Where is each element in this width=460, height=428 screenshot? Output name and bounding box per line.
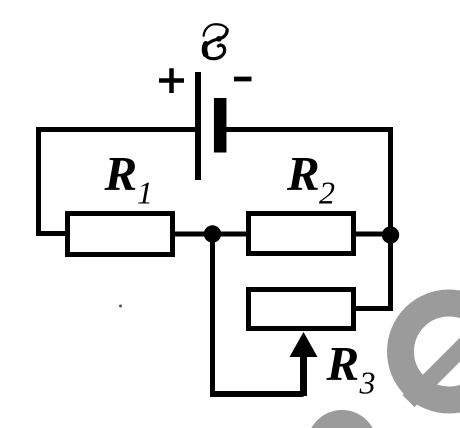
wire right vertical <box>388 127 393 309</box>
battery long plate (positive) <box>195 72 201 180</box>
svg-text:R: R <box>326 336 360 391</box>
minus label <box>234 77 252 82</box>
watermark ring (gray circle of logo) <box>401 303 460 401</box>
plus label <box>159 68 184 93</box>
battery thick plate (negative) <box>214 98 227 153</box>
node B junction dot <box>382 226 399 243</box>
svg-text:R: R <box>286 146 320 201</box>
speck artifact <box>119 305 122 308</box>
wiper arrowhead <box>290 332 318 357</box>
wire stub into R1 <box>36 231 67 236</box>
watermark slash <box>409 342 460 402</box>
rheostat R3 box <box>249 290 354 329</box>
wire stub to R3 right side <box>356 306 393 311</box>
wire bottom horizontal <box>210 391 304 397</box>
svg-text:3: 3 <box>359 365 376 401</box>
wire top-right segment <box>220 127 391 132</box>
wire node A down <box>210 234 215 394</box>
wiper arrow shaft <box>300 354 307 396</box>
resistor R2 <box>249 214 354 254</box>
node A junction dot <box>204 225 221 242</box>
svg-text:R: R <box>104 146 138 201</box>
wire top-left segment <box>36 127 198 132</box>
EMF script-E label <box>204 24 228 58</box>
resistor R1 <box>68 214 173 255</box>
watermark bottom hump <box>307 410 377 428</box>
wire node A to R2 <box>213 232 251 237</box>
wire R2 to node B <box>356 232 391 237</box>
svg-text:2: 2 <box>319 175 335 211</box>
wire R1 to node A <box>175 232 213 237</box>
svg-text:1: 1 <box>137 175 153 211</box>
wire left vertical <box>36 127 41 234</box>
